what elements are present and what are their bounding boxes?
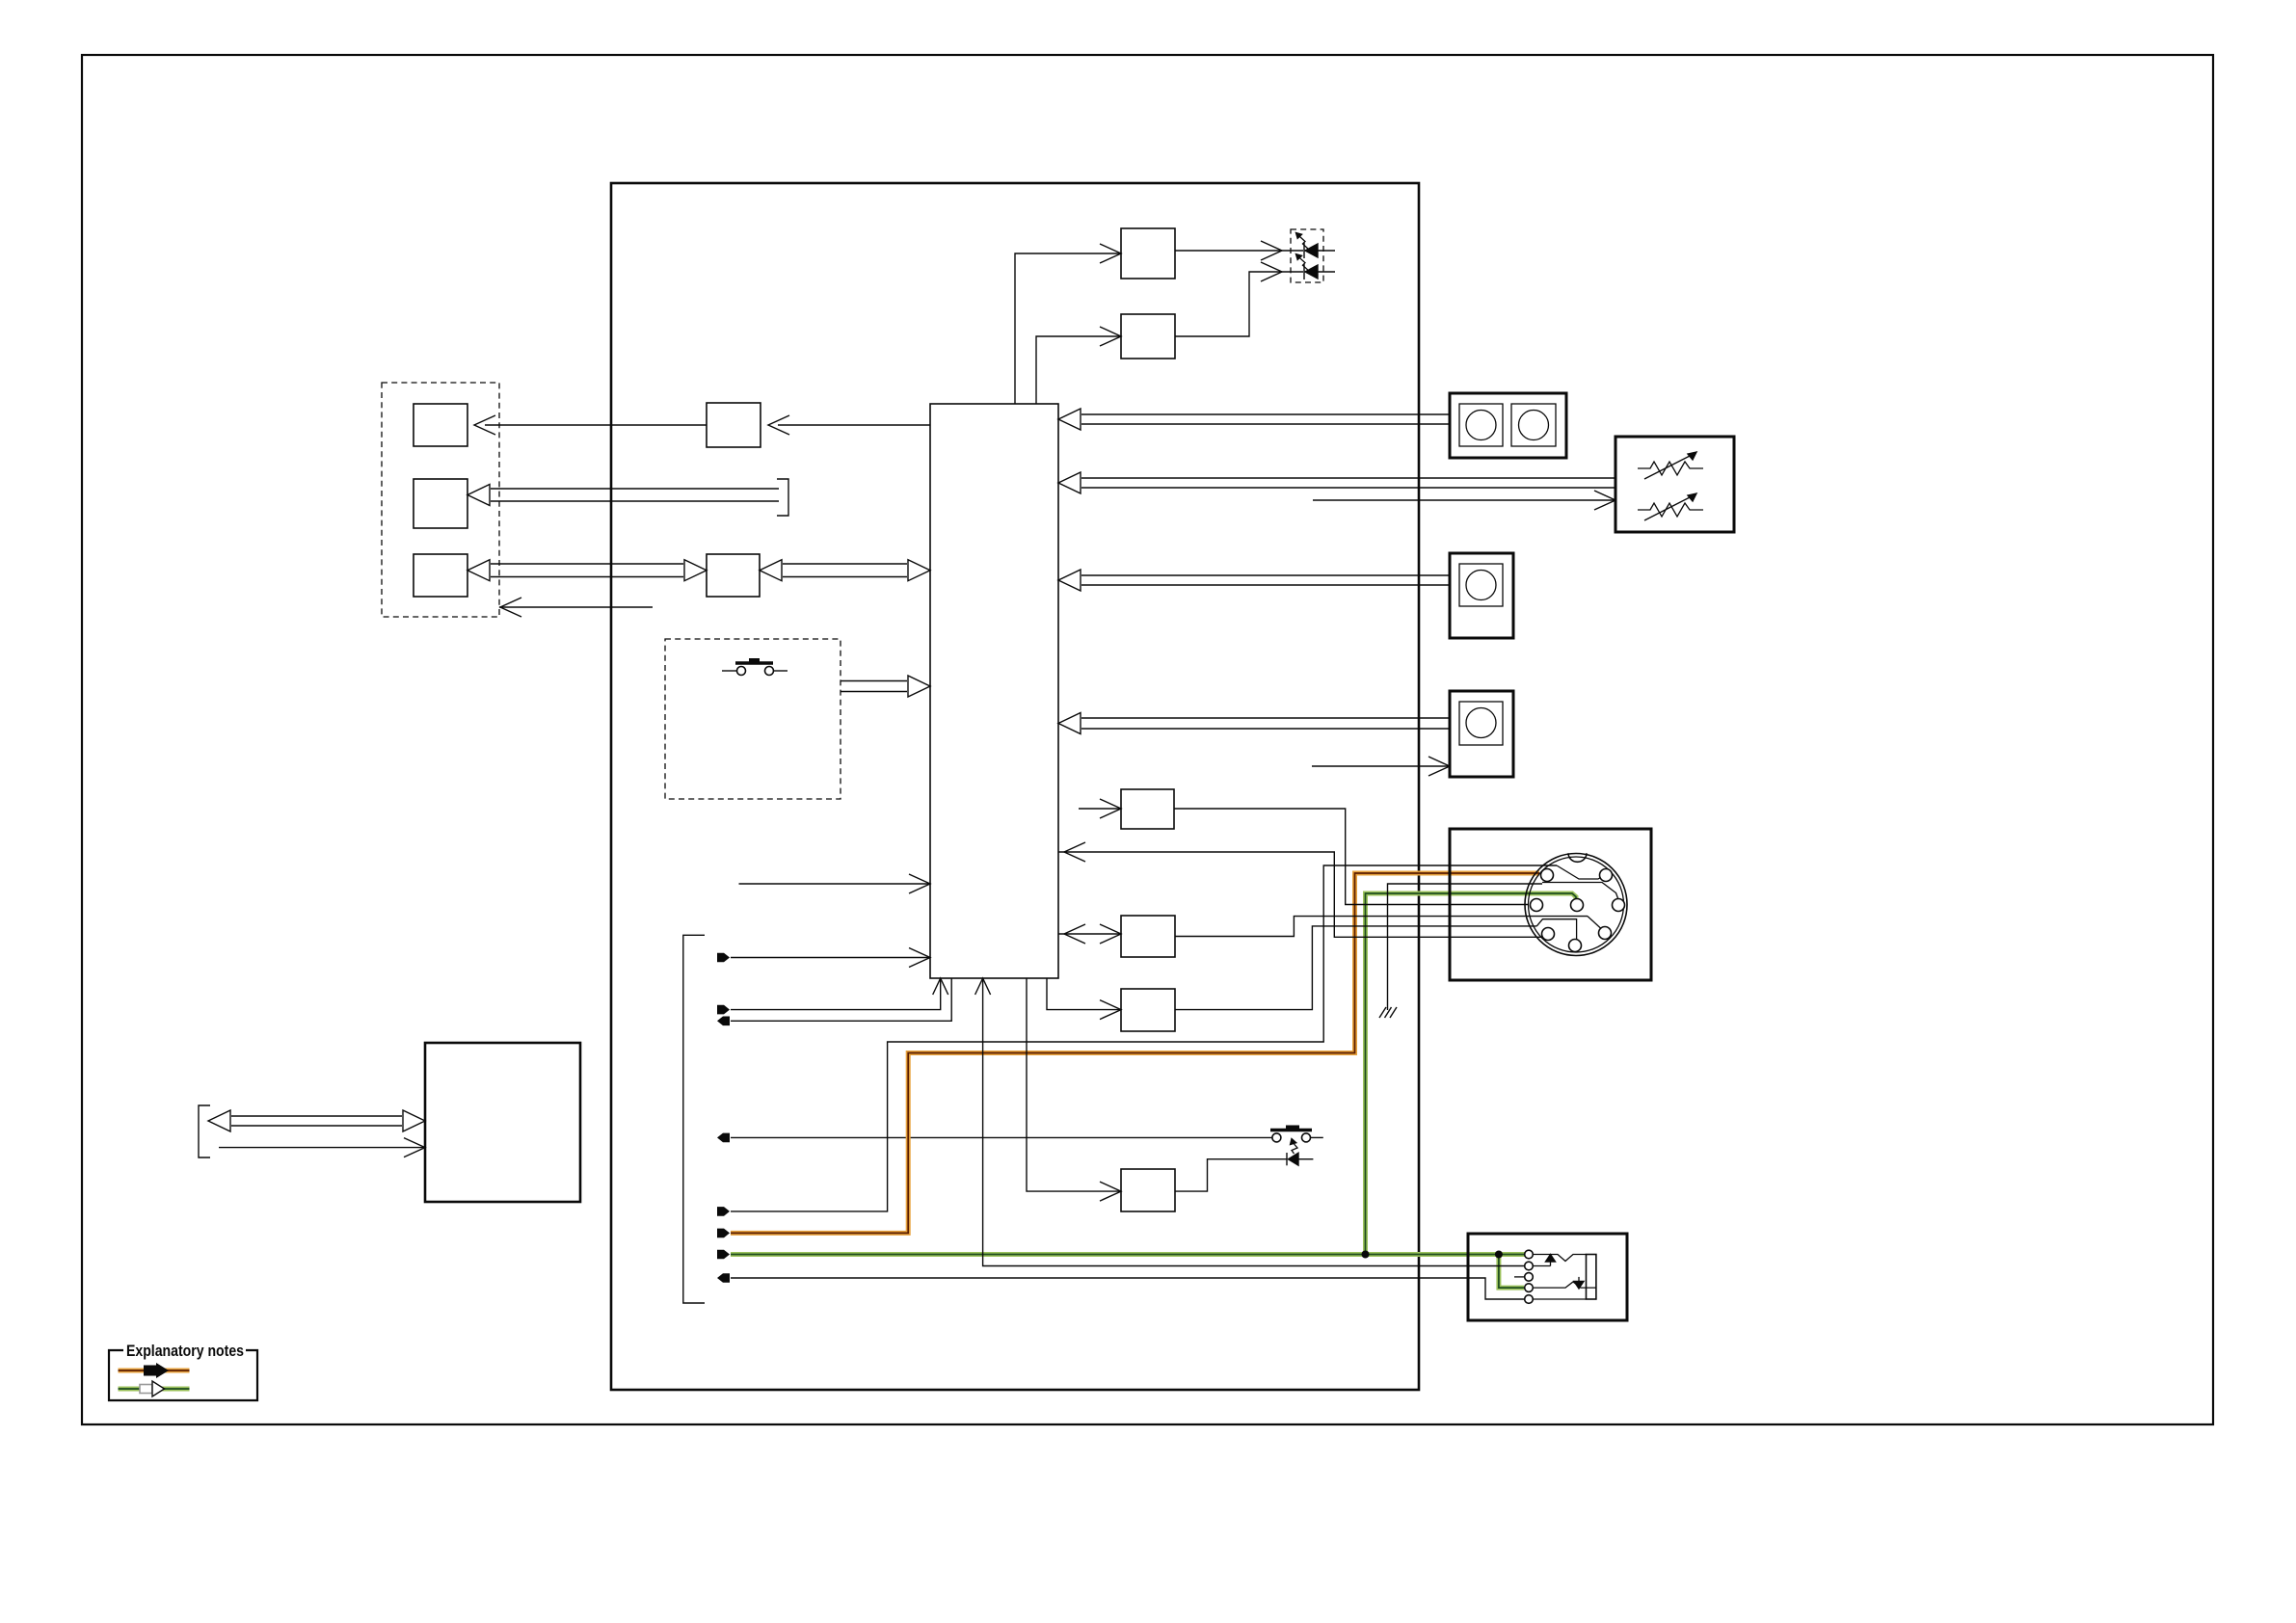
bracket terminator for bus B (777, 479, 788, 516)
DIN connector inner ring (1529, 857, 1624, 952)
LED D1 (1305, 244, 1318, 257)
DIN pin p3 (1531, 899, 1543, 912)
explanatory notes legend box (109, 1350, 257, 1400)
junction dot green branch (1362, 1251, 1370, 1259)
jack sleeve bar (1587, 1255, 1596, 1300)
wire H to DIN pin6 (1175, 926, 1536, 1010)
terminal t3 (717, 1017, 730, 1026)
variable resistor R2 (1638, 503, 1703, 517)
relay box K2 (1121, 314, 1175, 359)
wire J1 bottom to jack pin2 (983, 978, 1524, 1266)
jack pin j2 (1525, 1262, 1534, 1270)
DIN trace to pin p2 (1557, 865, 1602, 879)
chassis ground symbol (1379, 1007, 1386, 1018)
wire F to DIN pin3 (1174, 809, 1529, 905)
DIN connector outer ring (1525, 854, 1627, 956)
twin gauge connector box (1450, 393, 1566, 458)
jack pin j5 (1525, 1295, 1534, 1304)
driver box I (1121, 1169, 1175, 1211)
wire stub to J1 (739, 883, 931, 885)
bus wire B pair (491, 488, 779, 490)
bus wire to power unit (231, 1115, 402, 1117)
instrument cluster dashed box (382, 383, 499, 617)
DIN trace to pin p7 (1588, 917, 1601, 929)
audio jack box (1468, 1234, 1627, 1320)
driver box F (1121, 789, 1174, 829)
bus wire J1 to twin gauge (1081, 413, 1450, 415)
DIN pin p8 (1569, 940, 1582, 952)
terminal t2 (717, 1005, 730, 1015)
wire t8 to jack pin5 (731, 1278, 1524, 1299)
jack ring contact line (1534, 1282, 1596, 1288)
DIN pin p6 (1542, 928, 1555, 941)
variable resistor R1 (1638, 462, 1703, 475)
main control unit box (611, 183, 1419, 1390)
legend filled arrow (144, 1363, 169, 1378)
wire J1 top to K2 (1036, 336, 1121, 404)
wire J1 to G (1058, 933, 1121, 935)
indicator box B (414, 479, 467, 528)
terminal t4 (717, 1133, 730, 1143)
wire J1 bottom to box H (1047, 978, 1121, 1010)
terminal t8 (717, 1273, 730, 1283)
gauge connector box 3 (1450, 691, 1513, 777)
mode switch dashed box (665, 639, 841, 799)
input stub to F (1079, 808, 1121, 810)
bus wire J1 to gauge 3 (1081, 717, 1450, 719)
DIN trace to pin p8 (1536, 919, 1576, 940)
test push switch SW2 (1272, 1133, 1281, 1142)
terminal t5 (717, 1207, 730, 1216)
wire I to indicator diode (1175, 1159, 1287, 1191)
stub wire to gauge 3 (1312, 765, 1450, 767)
power unit box (425, 1043, 580, 1202)
LED indicator dashed box D1/D2 (1291, 229, 1323, 282)
ground wire from DIN pin5 (1388, 884, 1543, 1010)
wire t2 to J1 bottom (731, 978, 941, 1010)
wire to power unit (219, 1147, 425, 1149)
jack tip contact line (1534, 1255, 1587, 1262)
heater resistor box (1615, 437, 1734, 532)
harness bracket (199, 1105, 210, 1157)
wire J1 to D (778, 424, 930, 426)
indicator box A (414, 404, 467, 446)
DIN keyway notch (1568, 853, 1587, 862)
jack switch arrow up (1550, 1261, 1552, 1266)
wire D to A (485, 424, 707, 426)
legend orange wire sample (119, 1369, 190, 1373)
wire G to DIN pin7 (1175, 917, 1588, 937)
svg-text:Explanatory notes: Explanatory notes (126, 1343, 244, 1360)
junction dot green jack branch (1495, 1251, 1503, 1259)
wire t4 to test switch (731, 1136, 1272, 1138)
page border frame (82, 55, 2213, 1424)
bus wire C-E pair (491, 563, 683, 565)
terminal t6 (717, 1229, 730, 1238)
push button SW1 (722, 670, 736, 672)
DIN pin p2 (1600, 869, 1613, 882)
DIN pin p5 (1613, 899, 1625, 912)
bus wire J1 to gauge 2 (1081, 574, 1450, 576)
bus wire switch to J1 (841, 680, 907, 682)
harness bracket (terminals) (683, 935, 705, 1303)
stub wire to heater box (1313, 499, 1615, 501)
bus wire J1 to heater box (1081, 477, 1615, 479)
wire t3 to J1 bottom (731, 978, 951, 1021)
terminal t7 (717, 1250, 730, 1260)
central connector block J1 (930, 404, 1058, 978)
wire K1 to LED D1 (1175, 250, 1303, 252)
jack pin j3 stub (1514, 1276, 1524, 1278)
wire K2 to LED D2 (1175, 272, 1303, 336)
jack pin j2 line (1534, 1265, 1551, 1267)
indicator diode D3 (1286, 1153, 1288, 1165)
DIN pin p1 (1541, 869, 1554, 882)
jack pin j5 line (1534, 1298, 1587, 1300)
bus wire E-J1 pair (783, 563, 907, 565)
driver box H (1121, 989, 1175, 1031)
DIN pin p7 (1599, 927, 1612, 940)
green wire t7 trunk to jack pin1 (731, 1252, 1529, 1257)
jack pin j4 (1525, 1284, 1534, 1292)
indicator box C (414, 554, 467, 597)
DIN trace to pin p5 (1542, 883, 1618, 899)
DIN connector box (1450, 829, 1651, 980)
jack pin j1 (1525, 1250, 1534, 1259)
DIN pin p4 (1571, 899, 1584, 912)
wire stub into cluster (499, 606, 653, 608)
legend hollow arrow (140, 1385, 152, 1394)
jack pin j3 (1525, 1273, 1534, 1282)
legend green wire sample (119, 1387, 190, 1392)
terminal t1 (717, 953, 730, 963)
wire J1 bottom to box I (1027, 978, 1121, 1191)
LED D2 (1305, 265, 1318, 279)
wire t5 to DIN pin2 (staircase) (731, 865, 1557, 1211)
wire t1 to J1 (731, 957, 930, 959)
wire J1 top to K1 (1015, 253, 1121, 404)
wire A: J1 to DIN pin8 (1058, 852, 1544, 937)
orange wire t6 to DIN pin1 (731, 873, 1539, 1233)
jack switch arrow down (1578, 1277, 1580, 1282)
gauge connector box 2 (1450, 553, 1513, 638)
interface box E (707, 554, 760, 597)
driver box G (1121, 916, 1175, 957)
interface box D (707, 403, 761, 447)
relay box K1 (top) (1121, 228, 1175, 279)
